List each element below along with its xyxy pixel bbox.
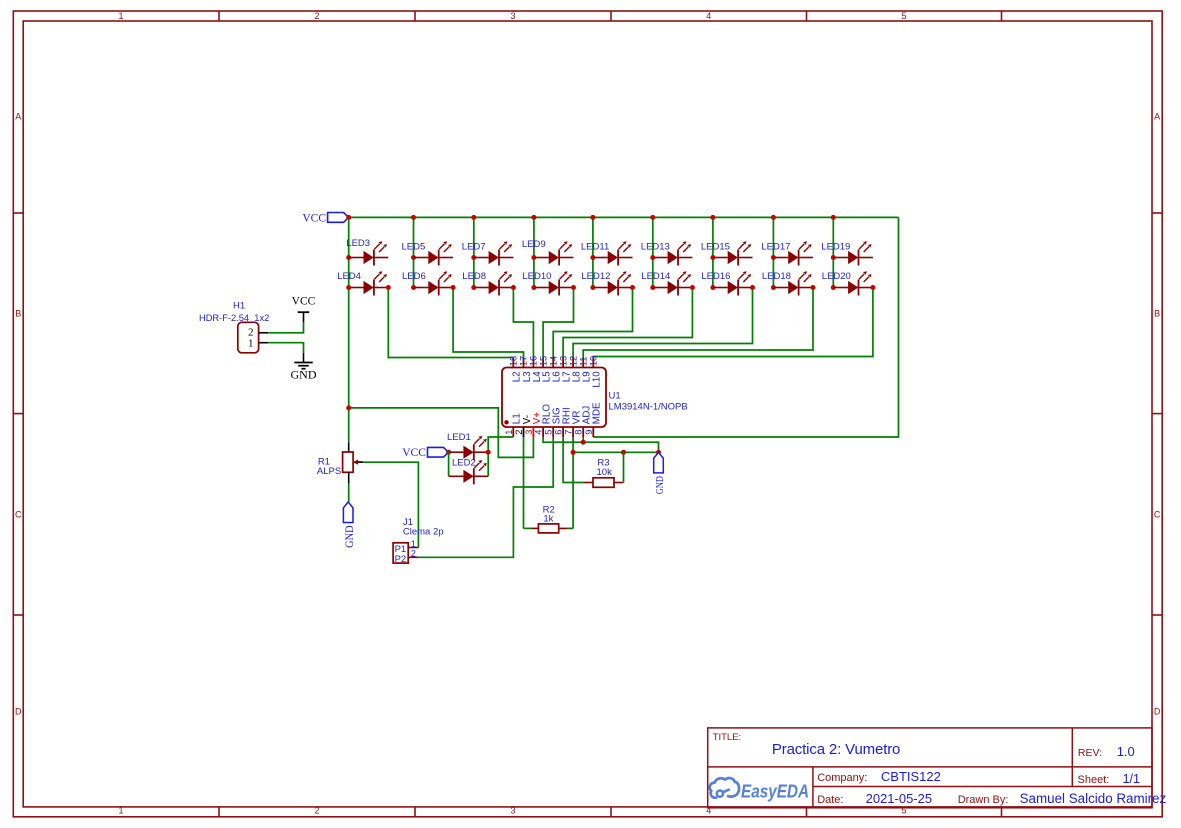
ground symbol GND (H1) [294,353,312,369]
LED LED9 [534,241,574,265]
junction rail col1 [346,215,351,220]
wire LED1 anode to LED2 anode [448,452,450,476]
junction anode LED6 [411,285,416,290]
junction rail col2 [411,215,416,220]
R3 right stub [614,482,624,484]
svg-text:4: 4 [706,11,711,21]
svg-text:H1: H1 [233,301,245,312]
net flag GND (R1) [343,502,353,523]
wire R2 right to pin7 net [567,527,573,529]
svg-text:A: A [15,112,21,122]
svg-text:L10: L10 [592,371,603,388]
svg-text:10: 10 [589,356,599,366]
wire cathode col4 to U1 pin 15 [543,288,573,358]
svg-text:6: 6 [554,430,564,435]
junction rail col7 [710,215,715,220]
svg-text:LED8: LED8 [462,271,486,282]
svg-text:U1: U1 [609,391,621,402]
svg-text:11: 11 [578,357,588,367]
wire R1 wiper to J1 pin1 [363,462,419,547]
svg-text:1: 1 [504,430,514,435]
svg-text:10k: 10k [597,467,613,478]
junction anode LED8 [471,285,476,290]
junction anode LED18 [771,285,776,290]
junction cathode col9 [870,285,875,290]
svg-text:REV:: REV: [1078,747,1102,759]
junction rail col6 [650,215,655,220]
LED LED3 [349,241,389,265]
U1 top pin 12 stub [572,358,574,368]
wire VCC feed column 4 [533,217,535,287]
wire VCC feed column 5 [592,217,594,287]
junction anode LED14 [650,285,655,290]
wire U1 pin 6 RHI to R3 left [563,437,584,483]
U1 top pin 16 stub [532,358,534,368]
svg-text:2: 2 [514,430,524,435]
U1 top pin 14 stub [552,358,554,368]
wire U1 pin 8 ADJ drop [582,437,584,442]
R1 bottom stub [348,472,350,483]
svg-text:Company:: Company: [817,772,867,784]
wire VCC feed column 3 [473,217,475,287]
junction anode LED10 [531,285,536,290]
wire VCC feed column 6 [652,217,654,287]
svg-text:Samuel Salcido Ramirez: Samuel Salcido Ramirez [1020,791,1167,806]
svg-text:A: A [1154,112,1160,122]
svg-text:LED1: LED1 [447,432,471,443]
wire cathode col7 to U1 pin 12 [573,288,752,358]
net flag GND (right) [654,452,664,473]
LED LED13 [653,241,693,265]
svg-text:LED3: LED3 [346,238,370,249]
U1 bottom pin 8 stub [582,427,584,437]
svg-text:CBTIS122: CBTIS122 [881,769,941,784]
svg-text:B: B [15,309,21,319]
svg-text:EasyEDA: EasyEDA [741,781,809,802]
junction rail col3 [471,215,476,220]
junction anode LED7 [471,255,476,260]
svg-text:GND: GND [291,368,317,382]
junction cathode col4 [571,285,576,290]
R2 right stub [559,527,567,529]
svg-text:P2: P2 [395,554,407,565]
U1 top pin 11 stub [582,358,584,368]
U1 bottom pin 1 stub [512,427,514,437]
junction rail col4 [531,215,536,220]
svg-text:7: 7 [564,430,574,435]
IC U1 LM3914N-1/NOPB body [502,368,606,428]
svg-text:LED6: LED6 [402,271,426,282]
LED LED15 [713,241,753,265]
junction anode LED16 [710,285,715,290]
R1 top stub [348,442,350,452]
connector H1 HDR-F-2.54_1x2 body [238,322,259,353]
LED LED20 [833,271,873,295]
wire R1 bottom to GND flag [348,483,350,502]
svg-text:C: C [1154,510,1161,520]
wire U1 pin 2 V- down to R2 [523,437,525,528]
LED LED6 [414,271,454,295]
svg-text:LED5: LED5 [402,242,426,253]
U1 top pin 17 stub [523,358,525,368]
svg-text:1: 1 [118,11,123,21]
svg-text:15: 15 [538,356,548,366]
wire LED cathodes to U1 pin 1 [488,437,513,476]
junction cathode col8 [811,285,816,290]
LED LED18 [773,271,813,295]
svg-text:12: 12 [568,356,578,366]
svg-text:2: 2 [314,805,319,815]
junction anode LED3 [346,255,351,260]
junction cathode col5 [630,285,635,290]
wire U1 pin 4 RLO to GND net [543,437,658,452]
svg-text:VCC: VCC [292,296,316,308]
LED LED17 [773,241,813,265]
LED LED8 [474,271,514,295]
svg-text:TITLE:: TITLE: [713,732,742,743]
LED LED14 [653,271,693,295]
LED LED12 [593,271,633,295]
U1 pin-1 marker dot [504,420,508,424]
power symbol VCC (H1) [298,312,310,322]
wire U1 pin 7 VR down to R2 right [572,437,574,528]
junction anode LED19 [831,255,836,260]
LED LED1 [449,436,489,460]
junction cathode col7 [750,285,755,290]
svg-text:4: 4 [534,430,544,435]
svg-text:4: 4 [706,805,711,815]
LED LED7 [474,241,514,265]
svg-text:LED16: LED16 [701,271,730,282]
svg-text:17: 17 [519,356,529,366]
svg-text:1.0: 1.0 [1117,744,1135,759]
svg-text:ALPS: ALPS [317,466,341,477]
svg-text:LED11: LED11 [581,242,609,253]
EasyEDA logo cloud [710,778,739,798]
R1 wiper arrow [353,460,363,465]
wire VCC feed column 7 [712,217,714,287]
junction anode LED12 [590,285,595,290]
svg-text:2021-05-25: 2021-05-25 [866,791,933,806]
wire GND horizontal line [573,451,658,453]
LED LED4 [349,271,389,295]
svg-text:3: 3 [510,805,515,815]
resistor R3 body [593,478,614,488]
LED LED5 [414,241,454,265]
svg-text:LED15: LED15 [701,242,730,253]
junction anode LED17 [771,255,776,260]
svg-text:14: 14 [548,356,558,366]
junction rail col5 [590,215,595,220]
junction cathode col6 [690,285,695,290]
junction anode LED13 [650,255,655,260]
svg-text:MDE: MDE [592,402,603,424]
svg-text:LED19: LED19 [821,242,850,253]
svg-text:LED4: LED4 [337,271,361,282]
svg-text:1: 1 [411,539,416,549]
wire cathode col1 to U1 pin 18 [388,288,513,358]
LED LED2 [449,460,489,484]
svg-text:GND: GND [344,525,356,548]
svg-text:GND: GND [654,476,666,494]
svg-text:VCC: VCC [402,447,426,459]
wire VCC feed column 1 [348,217,350,442]
junction cathode col3 [511,285,516,290]
LED LED11 [593,241,633,265]
wire VCC rail right drop to pin 9 (MDE) [593,217,898,437]
svg-text:LED20: LED20 [822,271,851,282]
J1 pin 2 stub [408,556,418,558]
net flag VCC (top rail) [328,213,349,223]
wire R2 left [524,527,532,529]
U1 bottom pin 4 stub [542,427,544,437]
junction LED1 cathode [486,450,491,455]
svg-text:D: D [15,707,22,717]
wire VCC to U1 pin 3 V+ [349,408,534,458]
junction anode LED9 [531,255,536,260]
svg-text:18: 18 [509,356,519,366]
wire VCC feed column 8 [772,217,774,287]
U1 bottom pin 5 stub [552,427,554,437]
svg-text:Sheet:: Sheet: [1078,774,1110,786]
title block [708,728,1152,808]
svg-text:LM3914N-1/NOPB: LM3914N-1/NOPB [609,402,688,413]
junction anode LED11 [590,255,595,260]
junction ADJ/RLO [581,440,586,445]
svg-text:2: 2 [314,11,319,21]
U1 bottom pin 2 stub [523,427,525,437]
junction rail col9 [831,215,836,220]
svg-text:9: 9 [584,430,594,435]
junction cathode col1 [386,285,391,290]
svg-text:LED14: LED14 [641,271,670,282]
svg-text:Clema 2p: Clema 2p [403,527,444,538]
U1 bottom pin 7 stub [572,427,574,437]
LED LED16 [713,271,753,295]
svg-text:LED2: LED2 [452,458,476,469]
junction LED1 anode [446,450,451,455]
svg-text:5: 5 [901,805,906,815]
svg-text:HDR-F-2.54_1x2: HDR-F-2.54_1x2 [199,313,269,323]
svg-text:LED18: LED18 [762,271,791,282]
wire H1 pin2 to VCC [268,322,303,333]
U1 top pin 18 stub [512,358,514,368]
junction VCC/R1 node [346,405,351,410]
svg-text:2: 2 [411,549,416,559]
svg-text:C: C [15,510,22,520]
LED LED10 [534,271,574,295]
wire cathode col2 to U1 pin 17 [453,288,523,358]
svg-text:1: 1 [118,805,123,815]
junction VR/GND [571,450,576,455]
wire H1 pin1 to GND [268,343,303,353]
H1 pin 2 stub [259,332,269,334]
svg-text:LED13: LED13 [641,242,670,253]
U1 top pin 10 stub [592,358,594,368]
svg-text:D: D [1154,707,1161,717]
R2 left stub [532,527,539,529]
svg-text:16: 16 [529,356,539,366]
U1 top pin 15 stub [542,358,544,368]
svg-text:1k: 1k [543,514,553,525]
svg-text:Date:: Date: [817,794,843,806]
junction R3 right riser [621,450,626,455]
wire VCC rail horizontal [349,216,899,218]
svg-text:Practica 2: Vumetro: Practica 2: Vumetro [772,741,901,758]
svg-text:5: 5 [901,11,906,21]
junction anode LED5 [411,255,416,260]
svg-text:LED7: LED7 [462,242,486,253]
junction GND flag node [656,450,661,455]
svg-text:3: 3 [524,430,534,435]
U1 bottom pin 3 stub [532,427,534,437]
wire cathode col9 to U1 pin 10 [593,288,873,358]
resistor R2 body [538,524,558,533]
svg-text:LED9: LED9 [522,239,546,250]
wire VCC feed column 9 [832,217,834,287]
svg-text:5: 5 [544,430,554,435]
LED LED19 [833,241,873,265]
svg-text:1: 1 [248,338,254,350]
svg-text:1/1: 1/1 [1123,772,1140,786]
wire cathode col5 to U1 pin 14 [553,288,632,358]
connector J1 Clema 2p body [393,543,408,563]
svg-text:VCC: VCC [302,212,326,224]
svg-text:8: 8 [574,430,584,435]
wire U1 pin 5 SIG to J1 pin2 [418,437,553,557]
junction cathode col2 [451,285,456,290]
R3 left stub [584,482,593,484]
svg-text:LED12: LED12 [581,271,610,282]
junction anode LED15 [710,255,715,260]
net flag VCC (LED1) [428,447,449,457]
svg-text:LED10: LED10 [522,271,551,282]
svg-text:LED17: LED17 [761,242,790,253]
svg-text:Drawn By:: Drawn By: [958,794,1009,806]
junction rail col8 [771,215,776,220]
wire cathode col3 to U1 pin 16 [513,288,533,358]
svg-text:13: 13 [558,356,568,366]
svg-text:3: 3 [510,11,515,21]
potentiometer R1 body [343,452,354,472]
junction anode LED20 [831,285,836,290]
wire cathode col8 to U1 pin 11 [583,288,813,358]
svg-text:B: B [1154,309,1160,319]
H1 pin 1 stub [259,342,269,344]
wire R3 right riser to GND line [623,452,625,482]
U1 bottom pin 9 stub [592,427,594,437]
U1 bottom pin 6 stub [562,427,564,437]
wire cathode col6 to U1 pin 13 [563,288,692,358]
U1 top pin 13 stub [562,358,564,368]
junction anode LED4 [346,285,351,290]
wire VCC feed column 2 [413,217,415,287]
J1 pin 1 stub [408,547,418,549]
